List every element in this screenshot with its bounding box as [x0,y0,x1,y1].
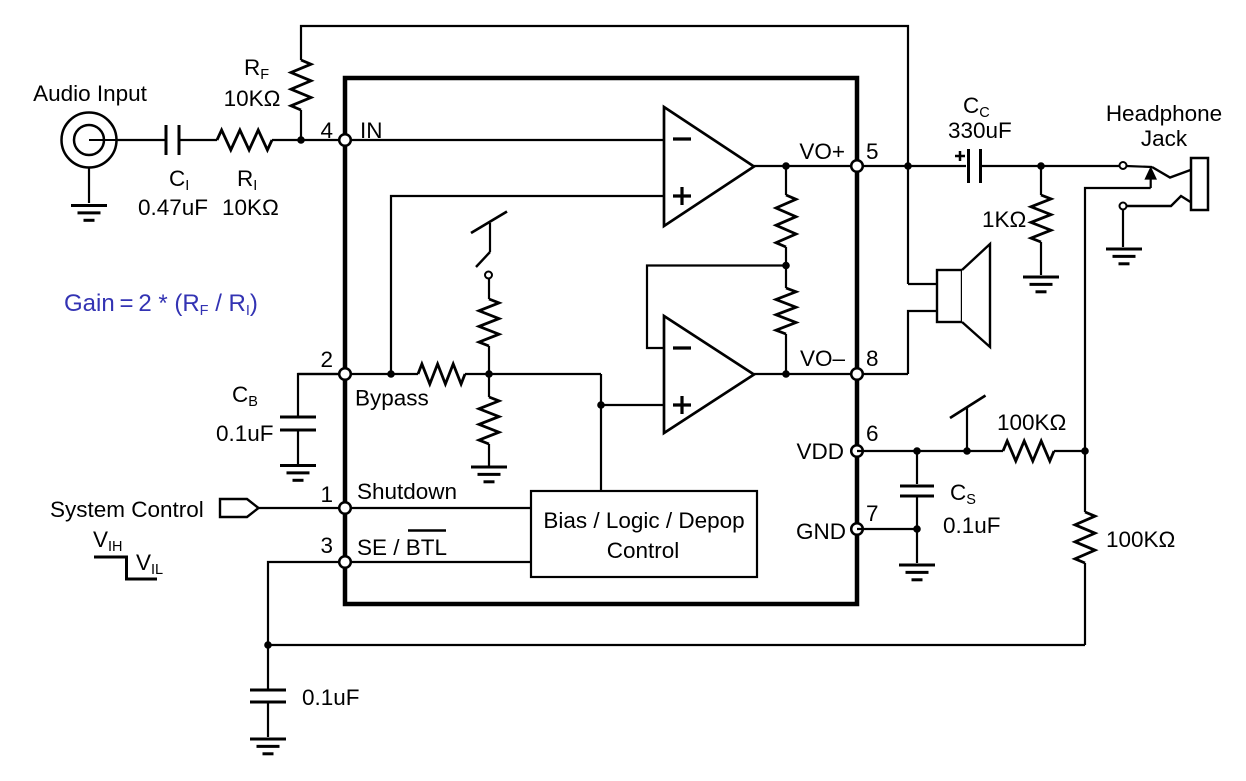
ground 1K [1023,276,1059,279]
svg-text:Bypass: Bypass [355,386,429,411]
resistor bypass series [418,364,465,384]
svg-text:330uF: 330uF [948,118,1012,143]
svg-text:VO+: VO+ [799,139,845,164]
wire GND pin to CS [857,528,917,530]
svg-text:Headphone: Headphone [1106,101,1222,126]
node bypass junction [387,370,395,378]
svg-text:0.1uF: 0.1uF [943,513,1001,538]
node VDD cap junction [913,447,921,455]
resistor internal lower [776,288,796,374]
node VDD switch junction [963,447,971,455]
op-amp U1A [664,107,754,226]
svg-text:100KΩ: 100KΩ [997,410,1066,435]
node VO+ junction [904,162,912,170]
svg-text:0.1uF: 0.1uF [216,421,274,446]
wire top feedback [301,26,908,284]
svg-text:Control: Control [607,538,680,563]
svg-text:VDD: VDD [796,439,844,464]
wire op-amp2 output VO- [754,373,908,375]
wire to divider node [465,373,601,375]
pin 7 GND [851,523,863,535]
ground CB [280,464,316,467]
switch S2 external [950,396,986,452]
switch contact circle [485,272,492,279]
wire VDD [857,450,1003,452]
svg-text:8: 8 [866,346,879,371]
speaker LS1 [937,244,990,347]
bias logic depop control block [531,491,757,577]
svg-text:10KΩ: 10KΩ [222,195,279,220]
wire headphone sense [1085,188,1151,512]
wire pin2 bypass [298,373,418,375]
wire SE/BTL [268,562,531,645]
svg-text:Audio Input: Audio Input [33,81,148,106]
wire junction to bias box [600,405,602,491]
svg-text:3: 3 [320,533,333,558]
wire shutdown [258,507,531,509]
resistor 100K lower [1075,512,1095,645]
op-amp U1B [664,316,754,433]
switch S1 internal [471,212,507,268]
wire op-amp1 output VO+ [754,165,966,167]
pin 6 VDD [851,445,863,457]
svg-text:Gain = 2 * (RF / RI): Gain = 2 * (RF / RI) [64,290,258,319]
node op2 plus junction [597,401,605,409]
capacitor CS [900,451,934,563]
svg-text:100KΩ: 100KΩ [1106,527,1175,552]
wire headphone ring ground [1122,210,1124,248]
pin 1 Shutdown [339,502,351,514]
node op2 output [782,370,790,378]
node 1K junction [1037,162,1045,170]
ground CS [899,564,935,567]
ground divider [471,466,507,469]
svg-text:6: 6 [866,421,879,446]
svg-text:IN: IN [360,118,383,143]
capacitor C1 (input) [166,125,179,155]
svg-text:Jack: Jack [1141,126,1188,151]
wire IN to op-amp1 inverting input [345,139,664,141]
svg-text:4: 4 [320,118,333,143]
wire VO+ to speaker [908,283,937,285]
pin 4 IN [339,134,351,146]
svg-text:System Control: System Control [50,497,204,522]
resistor internal upper [776,166,796,288]
pin 8 VO- [851,368,863,380]
node 100K junction [1081,447,1089,455]
capacitor shutdown 0.1uF [250,645,286,737]
svg-text:10KΩ: 10KΩ [224,86,281,111]
pin 5 VO+ [851,160,863,172]
resistor RI (input) [179,130,345,150]
wire to op-amp2 non-inverting [601,374,664,405]
svg-text:0.1uF: 0.1uF [302,685,360,710]
svg-text:1KΩ: 1KΩ [982,207,1026,232]
headphone ring contact circle [1120,203,1127,210]
IC U1 body [345,78,857,604]
svg-text:VO–: VO– [800,346,846,371]
resistor 1K [1031,166,1051,275]
pin 3 SE/BTL [339,556,351,568]
capacitor CC [955,149,1120,183]
capacitor CB [280,417,316,464]
node bottom cap junction [264,641,272,649]
waveform VIH VIL [94,557,157,579]
node input junction [297,136,305,144]
pin 2 Bypass [339,368,351,380]
svg-text:GND: GND [796,519,846,544]
headphone jack J2 [1126,158,1208,210]
svg-text:2: 2 [320,347,333,372]
system control connector [220,499,259,517]
svg-text:0.47uF: 0.47uF [138,195,208,220]
wire bottom net [268,644,1085,646]
resistor RF (feedback) [291,60,311,140]
svg-text:7: 7 [866,501,879,526]
svg-text:Shutdown: Shutdown [357,479,457,504]
ground headphone [1106,248,1142,251]
resistor divider lower [479,374,499,466]
wire VO- to speaker [908,311,937,374]
node feedback mid [782,262,790,270]
node divider [485,370,493,378]
ground at audio jack [71,204,107,207]
svg-text:1: 1 [320,482,333,507]
svg-text:5: 5 [866,139,879,164]
resistor divider upper [479,279,499,374]
audio input jack J1 [62,113,167,204]
ground bottom cap [250,738,286,741]
headphone tip contact circle [1120,162,1127,169]
svg-text:Bias / Logic / Depop: Bias / Logic / Depop [543,508,744,533]
wire feedback to op-amp2 inverting [647,266,786,349]
svg-text:SE / BTL: SE / BTL [357,535,447,560]
node CS gnd junction [913,525,921,533]
wire pin2 to CB [298,374,345,417]
node op1 output [782,162,790,170]
wire op-amp1 non-inverting input [391,196,664,374]
resistor 100K pullup [1003,441,1085,461]
